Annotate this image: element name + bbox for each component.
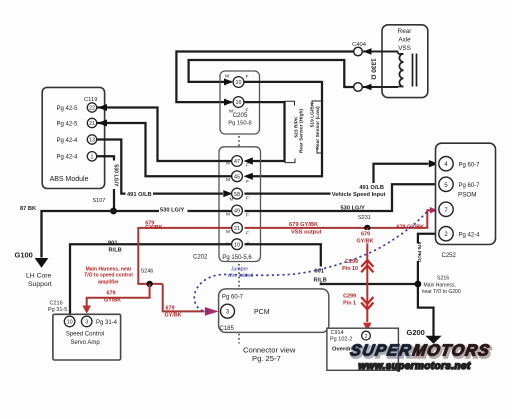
svg-text:M: M: [230, 196, 234, 202]
C202 pin 47: [226, 156, 249, 169]
svg-text:C914: C914: [331, 330, 344, 336]
C205 pin 10: [225, 74, 249, 88]
svg-text:679: 679: [107, 291, 116, 297]
svg-text:M: M: [226, 229, 230, 235]
PSOM pin 4: [439, 157, 453, 171]
svg-text:22: 22: [89, 106, 95, 112]
svg-text:49: 49: [234, 209, 240, 215]
connector C205 box: [220, 71, 260, 134]
red wire 679 GY/BK C202 pin21 to S231 to PSOM pin7: [245, 210, 431, 228]
svg-text:1330 Ω: 1330 Ω: [370, 58, 377, 79]
svg-text:F: F: [246, 212, 249, 218]
svg-text:3: 3: [85, 320, 88, 326]
svg-text:Rear: Rear: [398, 28, 412, 35]
wire 491 O/LB C202 pin58 to PSOM pin4: [245, 160, 439, 194]
ABS pin 21: [87, 118, 96, 127]
wire 530 LG/Y C202 pin49 to PSOM pin5: [245, 184, 439, 211]
PCM box: [219, 289, 329, 333]
svg-text:Axle: Axle: [398, 37, 411, 44]
svg-text:amplifier: amplifier: [98, 279, 119, 285]
svg-text:Pg 31-4: Pg 31-4: [96, 320, 118, 326]
svg-text:58: 58: [234, 192, 240, 198]
svg-text:13: 13: [89, 138, 95, 144]
arrow into C202 pin 45: [244, 173, 253, 180]
svg-text:S107: S107: [93, 198, 106, 204]
svg-text:Rear Sensor (High): Rear Sensor (High): [299, 108, 305, 153]
wire ABS pin22 to C202 pin47: [97, 104, 232, 161]
svg-text:491 O/LB: 491 O/LB: [127, 192, 152, 198]
note connector view: [243, 346, 296, 364]
ground G200: [407, 328, 442, 344]
wire 491 O/LB ABS pin13 to C202 pin58: [97, 140, 233, 198]
svg-text:Pg 150-5,6: Pg 150-5,6: [222, 255, 252, 261]
svg-text:47: 47: [234, 159, 240, 165]
svg-text:VSS: VSS: [398, 45, 411, 52]
C202 pin 49: [226, 205, 249, 218]
dashed link C205 to C202: [238, 136, 240, 146]
dashed link PCM to connector view note: [238, 334, 240, 344]
svg-text:530 LG/Y: 530 LG/Y: [160, 208, 185, 214]
svg-text:519 LG/BK: 519 LG/BK: [310, 102, 316, 127]
svg-text:1: 1: [91, 155, 94, 161]
svg-text:Pg 60-7: Pg 60-7: [459, 162, 481, 168]
PSOM pin 2: [439, 227, 453, 241]
svg-text:Pg 150-8: Pg 150-8: [228, 121, 252, 127]
ABS pin 1: [87, 152, 96, 161]
svg-text:530 LG/Y: 530 LG/Y: [341, 206, 366, 212]
C202 pin 45: [226, 171, 249, 185]
label 523 R/PK Rear Sensor (High): [285, 101, 305, 162]
svg-text:Support: Support: [28, 281, 52, 288]
wire 901 R/LB C202 pin10 to S216: [245, 244, 418, 284]
label 491 O/LB left: [126, 190, 154, 198]
svg-text:45: 45: [234, 175, 240, 181]
svg-text:R/LB: R/LB: [109, 248, 122, 254]
svg-text:M: M: [226, 160, 230, 166]
dashed link C202 to PCM: [238, 264, 240, 288]
PSOM pin 5: [439, 177, 453, 191]
Speed Control pin 3: [81, 316, 92, 327]
svg-text:S231: S231: [358, 215, 371, 221]
svg-text:C299: C299: [345, 259, 358, 265]
label 679 GY/BK VSS output: [289, 222, 322, 236]
C914 box: [327, 328, 399, 370]
svg-text:679 GY/BK: 679 GY/BK: [289, 222, 319, 228]
wire 901 R/LB C202 pin10 to Speed Control pin10: [70, 240, 232, 316]
label C216 Pg 31-5: [48, 301, 67, 314]
svg-text:10: 10: [234, 242, 240, 248]
splice S246: [141, 269, 154, 288]
red wire S246 to PCM pin3: [163, 284, 219, 316]
wire C404 lower to C205 pin 10: [189, 60, 354, 87]
svg-text:F: F: [246, 195, 249, 201]
svg-text:F: F: [246, 179, 249, 185]
connector C404 lower terminal: [354, 83, 363, 92]
connector C299 pin 10 chevrons: [342, 259, 373, 272]
svg-text:G200: G200: [407, 328, 425, 337]
wire ABS pin21 to C202 pin45: [97, 120, 232, 177]
svg-text:Vehicle Speed Input: Vehicle Speed Input: [332, 192, 386, 198]
svg-text:GY/BK: GY/BK: [356, 239, 373, 245]
red wire 679 GY/BK C202 pin21 to S246: [138, 228, 232, 284]
wire 676 PK/O PSOM pin2 to S216 to G200: [415, 234, 439, 336]
svg-text:Main Harness,: Main Harness,: [424, 283, 456, 289]
svg-text:C299: C299: [343, 294, 356, 300]
svg-text:Pg 102-2: Pg 102-2: [330, 337, 352, 343]
label 679 GY/BK at PCM: [165, 305, 182, 318]
svg-text:F: F: [247, 242, 250, 248]
Rear Axle VSS box: [382, 25, 428, 98]
svg-text:21: 21: [89, 121, 95, 127]
C202 pin 58: [230, 188, 250, 202]
ABS pin 13: [87, 135, 96, 144]
wire 530 LG/Y S107 to C202 pin49: [114, 206, 233, 214]
C202 pin 10: [226, 239, 250, 250]
svg-text:16: 16: [236, 100, 242, 106]
svg-text:Rear Sensor (Low): Rear Sensor (Low): [315, 106, 321, 150]
svg-text:2: 2: [365, 334, 368, 340]
splice S216: [415, 276, 461, 295]
svg-text:M: M: [226, 242, 230, 248]
svg-text:wire added: wire added: [228, 273, 253, 279]
svg-text:near T/O to G200: near T/O to G200: [422, 289, 461, 295]
svg-text:Pg. 25-7: Pg. 25-7: [252, 354, 281, 363]
svg-text:C216: C216: [50, 301, 63, 307]
splice S231: [358, 215, 371, 231]
svg-text:676 PK/O: 676 PK/O: [417, 242, 422, 263]
svg-text:Servo Amp: Servo Amp: [70, 340, 100, 346]
svg-text:F: F: [246, 74, 249, 80]
PSOM pin 7: [439, 202, 453, 216]
svg-text:C252: C252: [442, 253, 457, 259]
svg-text:MOTORS: MOTORS: [411, 342, 492, 360]
svg-text:Main Harness, near: Main Harness, near: [86, 266, 132, 272]
PSOM box: [436, 143, 496, 244]
svg-text:M: M: [225, 74, 229, 80]
svg-text:M: M: [226, 211, 230, 217]
svg-text:www.supermotors.net: www.supermotors.net: [358, 361, 471, 372]
label 679 GY/BK at pin21: [145, 220, 162, 231]
svg-text:C119: C119: [84, 97, 97, 103]
svg-text:S216: S216: [437, 276, 449, 282]
red wire S231 down to C914 pin2: [356, 228, 376, 331]
svg-text:Pin 1: Pin 1: [343, 300, 356, 306]
svg-text:S246: S246: [141, 269, 154, 275]
arrow into C205 pin 16: [224, 99, 233, 106]
svg-text:GY/BK: GY/BK: [104, 298, 121, 304]
C914 pin 2: [362, 331, 371, 340]
ground G100: [15, 251, 52, 289]
svg-text:VSS output: VSS output: [291, 230, 322, 236]
svg-text:Pg 60-7: Pg 60-7: [222, 295, 244, 301]
svg-text:530 LG/Y: 530 LG/Y: [112, 164, 118, 187]
ABS pin 22: [87, 103, 96, 112]
PCM pin 3: [221, 304, 235, 318]
svg-text:F: F: [246, 231, 249, 237]
wire 87 BK S107 to G100: [20, 206, 114, 258]
svg-text:M: M: [226, 177, 230, 183]
splice S107: [93, 198, 117, 214]
arrow into C205 pin 10: [224, 78, 233, 85]
jumper wire added (blue dashed): [194, 212, 427, 311]
svg-text:Pg 42-4: Pg 42-4: [57, 138, 79, 144]
svg-text:901: 901: [108, 240, 118, 246]
svg-text:GY/BK: GY/BK: [165, 312, 182, 318]
label 519 LG/BK Rear Sensor (Low): [310, 101, 323, 153]
svg-text:Pg 42-5: Pg 42-5: [57, 106, 79, 112]
svg-text:Pg 60-7: Pg 60-7: [459, 183, 481, 189]
supermotors watermark: [348, 342, 493, 372]
wire 519 LG/BK C205 pin10 to C202 pin45: [245, 82, 323, 176]
C202 pin 21: [226, 223, 249, 237]
svg-text:21: 21: [234, 226, 240, 232]
wire ABS pin1 to S107: [97, 156, 115, 211]
Speed Control pin 10: [64, 316, 75, 327]
svg-text:Pg 42-5: Pg 42-5: [57, 121, 79, 127]
wire VSS coil to C404 lower: [363, 84, 398, 91]
svg-text:10: 10: [67, 320, 73, 326]
note main harness speed control: [84, 266, 133, 285]
svg-text:G100: G100: [15, 251, 33, 260]
svg-text:T/O to speed control: T/O to speed control: [84, 273, 133, 279]
svg-text:LH Core: LH Core: [26, 273, 52, 280]
svg-text:PCM: PCM: [254, 309, 270, 316]
Speed Control Servo Amp box: [53, 314, 121, 360]
C205 pin 16: [229, 97, 249, 115]
svg-text:679: 679: [166, 305, 175, 311]
svg-text:SUPER: SUPER: [349, 342, 414, 360]
svg-text:R/LB: R/LB: [314, 277, 327, 283]
svg-text:C185: C185: [220, 326, 235, 332]
svg-text:PSOM: PSOM: [458, 191, 477, 198]
wire 523 R/PK C205 pin16 to C202 pin47: [245, 102, 285, 161]
svg-text:F: F: [246, 162, 249, 168]
arrow into C202 pin 47: [244, 157, 253, 164]
svg-text:GY/BK: GY/BK: [145, 225, 162, 231]
connector C299 pin 1 chevrons: [343, 294, 373, 310]
svg-text:Speed Control: Speed Control: [66, 332, 104, 338]
label 679 GY/BK at speed control: [104, 291, 121, 304]
svg-text:Pg 42-4: Pg 42-4: [459, 232, 481, 238]
ABS Module box: [42, 87, 104, 188]
VSS sensor coil L1: [398, 54, 417, 87]
svg-text:Pg 31-5: Pg 31-5: [48, 307, 67, 313]
svg-text:491 O/LB: 491 O/LB: [359, 185, 384, 191]
svg-text:10: 10: [236, 80, 242, 86]
svg-text:F: F: [246, 108, 249, 114]
svg-text:Pg 42-4: Pg 42-4: [57, 155, 79, 161]
svg-text:C404: C404: [352, 42, 367, 48]
svg-text:M: M: [229, 109, 233, 115]
connector C202 box: [219, 147, 261, 262]
svg-text:Pin 10: Pin 10: [342, 266, 358, 272]
svg-text:ABS Module: ABS Module: [50, 176, 89, 183]
red wire S246 to Speed Control pin3: [82, 284, 149, 314]
svg-text:87 BK: 87 BK: [20, 206, 37, 212]
svg-text:679: 679: [361, 232, 370, 238]
label 491 O/LB Vehicle Speed Input: [331, 183, 387, 198]
svg-text:C202: C202: [193, 255, 208, 261]
connector C404 upper terminal: [352, 42, 367, 56]
wire VSS coil to C404 upper: [363, 48, 398, 55]
label 530 LG/Y vertical: [111, 161, 119, 190]
wire C404 upper to C205 pin 16: [176, 52, 353, 103]
